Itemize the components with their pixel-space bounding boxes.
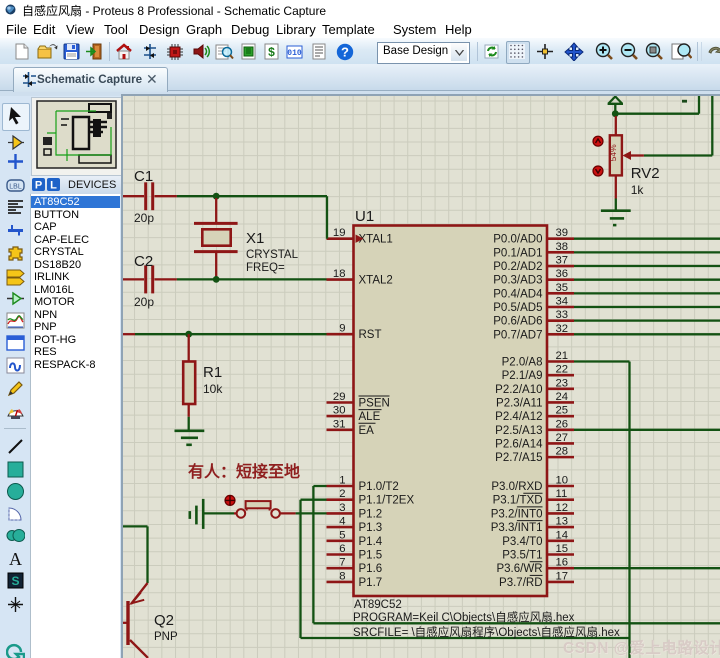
label 1k bbox=[631, 183, 645, 197]
pin 24 P2.3/A11 bbox=[496, 391, 574, 410]
node junction power/RV2 bbox=[612, 110, 619, 117]
svg-text:P1.6: P1.6 bbox=[359, 563, 383, 575]
svg-text:PROGRAM=Keil C\Objects\自感应风扇.h: PROGRAM=Keil C\Objects\自感应风扇.hex bbox=[353, 610, 575, 624]
svg-text:37: 37 bbox=[556, 255, 569, 267]
wire riser up left bbox=[698, 96, 700, 114]
svg-text:FREQ=: FREQ= bbox=[246, 262, 285, 274]
label 10k bbox=[203, 382, 223, 396]
pin 3 P1.2 bbox=[327, 502, 383, 521]
crystal X1 bbox=[194, 198, 238, 278]
svg-text:10: 10 bbox=[556, 475, 569, 487]
RV2 up adjust marker bbox=[593, 136, 603, 146]
wire P0.4 to right edge bbox=[574, 292, 720, 294]
svg-text:?: ? bbox=[341, 45, 349, 60]
label FREQ= bbox=[246, 262, 285, 274]
resistor R1 bbox=[183, 334, 195, 417]
pin 38 P0.1/AD1 bbox=[493, 241, 574, 259]
wire button to P1.2 bbox=[296, 512, 327, 514]
pin 2 P1.1/T2EX bbox=[327, 488, 415, 507]
annotation 有人：短接至地 bbox=[188, 462, 300, 481]
wire P0.7 to right edge bbox=[574, 333, 720, 335]
svg-text:2: 2 bbox=[339, 488, 345, 500]
svg-text:A: A bbox=[9, 549, 22, 568]
svg-text:P1.0/T2: P1.0/T2 bbox=[359, 481, 399, 493]
pin 37 P0.2/AD2 bbox=[493, 255, 574, 274]
label 20p C1 bbox=[134, 211, 154, 225]
capacitor C1 bbox=[146, 182, 153, 210]
svg-text:P0.2/AD2: P0.2/AD2 bbox=[493, 261, 542, 273]
ground RV2 bbox=[601, 211, 631, 225]
svg-text:EA: EA bbox=[359, 425, 375, 437]
svg-text:1k: 1k bbox=[631, 183, 645, 197]
transistor Q2 PNP bbox=[123, 583, 148, 658]
svg-text:Q2: Q2 bbox=[154, 612, 174, 629]
pin 31 EA bbox=[327, 418, 376, 437]
svg-text:C1: C1 bbox=[134, 168, 153, 185]
pin 14 P3.4/T0 bbox=[502, 529, 574, 548]
svg-text:P: P bbox=[35, 180, 42, 192]
pin 16 P3.6/WR bbox=[496, 557, 574, 576]
pin 36 P0.3/AD3 bbox=[493, 268, 574, 287]
wire SRCFILE net horizontal bbox=[301, 637, 630, 639]
svg-text:3: 3 bbox=[339, 502, 345, 514]
pin 27 P2.6/A14 bbox=[495, 432, 574, 451]
svg-text:22: 22 bbox=[556, 364, 569, 376]
wire riser up right bbox=[711, 96, 713, 156]
svg-text:S: S bbox=[11, 574, 19, 588]
svg-text:U1: U1 bbox=[355, 208, 374, 225]
pin 10 P3.0/RXD bbox=[491, 475, 574, 494]
wire C1 right lead bbox=[155, 195, 177, 197]
capacitor C2 bbox=[146, 265, 153, 293]
svg-text:P3.7/RD: P3.7/RD bbox=[499, 577, 542, 589]
mcu U1 AT89C52 body bbox=[354, 226, 548, 597]
svg-text:17: 17 bbox=[556, 570, 569, 582]
svg-text:39: 39 bbox=[556, 227, 569, 239]
svg-text:XTAL1: XTAL1 bbox=[359, 234, 393, 246]
node junction C1/X1 bbox=[213, 193, 220, 200]
svg-text:X1: X1 bbox=[246, 230, 264, 247]
pin 15 P3.5/T1 bbox=[502, 543, 574, 562]
svg-text:P0.0/AD0: P0.0/AD0 bbox=[493, 234, 542, 246]
pin 32 P0.7/AD7 bbox=[493, 323, 574, 342]
svg-text:20p: 20p bbox=[134, 295, 154, 309]
pin 39 P0.0/AD0 bbox=[493, 227, 574, 246]
svg-text:30: 30 bbox=[333, 405, 346, 417]
svg-text:P1.1/T2EX: P1.1/T2EX bbox=[359, 495, 415, 507]
svg-text:P2.1/A9: P2.1/A9 bbox=[502, 370, 543, 382]
svg-text:L: L bbox=[50, 180, 57, 192]
svg-text:1: 1 bbox=[339, 475, 345, 487]
svg-text:4: 4 bbox=[339, 516, 345, 528]
svg-text:P0.6/AD6: P0.6/AD6 bbox=[493, 316, 542, 328]
svg-text:35: 35 bbox=[556, 282, 569, 294]
svg-text:32: 32 bbox=[556, 323, 569, 335]
label C1 bbox=[134, 168, 153, 185]
svg-text:13: 13 bbox=[556, 516, 569, 528]
pin 30 ALE bbox=[327, 405, 382, 424]
pin 4 P1.3 bbox=[327, 516, 383, 535]
svg-text:CRYSTAL: CRYSTAL bbox=[246, 249, 299, 261]
pin 12 P3.2/INT0 bbox=[491, 502, 574, 521]
svg-text:有人：短接至地: 有人：短接至地 bbox=[188, 462, 300, 481]
svg-text:LBL: LBL bbox=[9, 184, 22, 191]
pin 35 P0.4/AD4 bbox=[493, 282, 574, 301]
svg-text:P0.5/AD5: P0.5/AD5 bbox=[493, 302, 542, 314]
node junction RST/R1 bbox=[185, 331, 192, 338]
svg-text:P1.7: P1.7 bbox=[359, 577, 383, 589]
label SRCFILE property bbox=[353, 625, 620, 639]
pin 18 XTAL2 bbox=[327, 268, 393, 287]
svg-text:AT89C52: AT89C52 bbox=[354, 599, 402, 611]
wire RV2 to ground bbox=[615, 199, 617, 211]
ground R1 bbox=[175, 431, 205, 445]
label PROGRAM property bbox=[353, 610, 575, 624]
pin 19 XTAL1 bbox=[327, 227, 393, 246]
label Q2 bbox=[154, 612, 174, 629]
svg-text:P0.3/AD3: P0.3/AD3 bbox=[493, 275, 542, 287]
label R1 bbox=[203, 364, 222, 381]
node junction C2/X1 bbox=[213, 276, 220, 283]
wire wiper net bbox=[644, 154, 712, 156]
pin 34 P0.5/AD5 bbox=[493, 296, 574, 315]
svg-text:PNP: PNP bbox=[154, 631, 178, 643]
pin 28 P2.7/A15 bbox=[495, 446, 574, 465]
svg-text:P2.7/A15: P2.7/A15 bbox=[495, 452, 542, 464]
svg-text:RV2: RV2 bbox=[631, 165, 660, 182]
svg-text:P2.6/A14: P2.6/A14 bbox=[495, 438, 543, 450]
pin 6 P1.5 bbox=[327, 543, 383, 562]
svg-text:P3.2/INT0: P3.2/INT0 bbox=[491, 508, 543, 520]
wire P0.2 to right edge bbox=[574, 265, 720, 267]
svg-text:26: 26 bbox=[556, 418, 569, 430]
pin 13 P3.3/INT1 bbox=[491, 516, 574, 535]
button S1 bbox=[234, 501, 296, 518]
svg-text:36: 36 bbox=[556, 268, 569, 280]
svg-text:12: 12 bbox=[556, 502, 569, 514]
svg-text:14: 14 bbox=[556, 529, 569, 541]
svg-text:P1.3: P1.3 bbox=[359, 522, 383, 534]
svg-text:P2.3/A11: P2.3/A11 bbox=[496, 397, 542, 409]
label CRYSTAL bbox=[246, 249, 299, 261]
svg-text:16: 16 bbox=[556, 557, 569, 569]
wire P2.0/A8 vertical down bbox=[628, 362, 630, 658]
wire PROGRAM net horizontal bbox=[313, 622, 720, 624]
svg-text:18: 18 bbox=[333, 268, 346, 280]
pin 29 PSEN bbox=[327, 391, 390, 410]
wire power to right riser bbox=[615, 113, 699, 115]
svg-text:P3.3/INT1: P3.3/INT1 bbox=[491, 522, 543, 534]
pin 5 P1.4 bbox=[327, 529, 383, 548]
wire pin1 P1.0 elbow bbox=[313, 486, 326, 623]
svg-text:29: 29 bbox=[333, 391, 346, 403]
svg-text:8: 8 bbox=[339, 570, 345, 582]
pin 17 P3.7/RD bbox=[499, 570, 574, 589]
svg-text:34: 34 bbox=[556, 296, 569, 308]
wire C1 to XTAL1 node bbox=[177, 195, 327, 197]
svg-text:28: 28 bbox=[556, 446, 569, 458]
pin 26 P2.5/A13 bbox=[495, 418, 574, 437]
svg-text:20p: 20p bbox=[134, 211, 154, 225]
svg-text:P3.4/T0: P3.4/T0 bbox=[502, 536, 542, 548]
wire RST stub offpage bbox=[123, 333, 135, 335]
svg-text:24: 24 bbox=[556, 391, 569, 403]
svg-text:ALE: ALE bbox=[359, 411, 381, 423]
svg-text:10k: 10k bbox=[203, 382, 223, 396]
svg-text:5: 5 bbox=[339, 529, 345, 541]
potentiometer RV2 bbox=[608, 116, 644, 199]
pin 21 P2.0/A8 bbox=[502, 350, 574, 369]
svg-text:P1.2: P1.2 bbox=[359, 508, 383, 520]
svg-text:21: 21 bbox=[556, 350, 569, 362]
svg-text:P3.6/WR: P3.6/WR bbox=[496, 563, 542, 575]
svg-text:27: 27 bbox=[556, 432, 569, 444]
svg-text:7: 7 bbox=[339, 557, 345, 569]
svg-text:P2.4/A12: P2.4/A12 bbox=[495, 411, 542, 423]
wire Q2 emitter net bbox=[123, 526, 148, 583]
svg-text:19: 19 bbox=[333, 227, 346, 239]
wire pin2 P1.1 elbow bbox=[301, 500, 327, 638]
svg-text:$: $ bbox=[268, 45, 275, 59]
pin 23 P2.2/A10 bbox=[495, 377, 574, 396]
svg-text:R1: R1 bbox=[203, 364, 222, 381]
pin 33 P0.6/AD6 bbox=[493, 309, 574, 328]
svg-text:RST: RST bbox=[359, 329, 382, 341]
svg-text:P1.4: P1.4 bbox=[359, 536, 383, 548]
svg-text:6: 6 bbox=[339, 543, 345, 555]
label C2 bbox=[134, 253, 153, 270]
pin 7 P1.6 bbox=[327, 557, 383, 576]
wire P2.5/A13 to right edge bbox=[574, 429, 720, 431]
svg-text:P2.2/A10: P2.2/A10 bbox=[495, 384, 542, 396]
wire ground to button bbox=[203, 512, 234, 514]
svg-text:P3.0/RXD: P3.0/RXD bbox=[491, 481, 542, 493]
svg-text:XTAL2: XTAL2 bbox=[359, 275, 393, 287]
svg-text:P2.0/A8: P2.0/A8 bbox=[502, 357, 543, 369]
label X1 bbox=[246, 230, 264, 247]
pin 11 P3.1/TXD bbox=[493, 488, 574, 507]
svg-text:23: 23 bbox=[556, 377, 569, 389]
svg-text:11: 11 bbox=[556, 488, 568, 500]
label 20p C2 bbox=[134, 295, 154, 309]
svg-text:P0.7/AD7: P0.7/AD7 bbox=[493, 329, 542, 341]
wire C2 left lead bbox=[123, 278, 144, 280]
wire P0.5 to right edge bbox=[574, 306, 720, 308]
svg-text:54%: 54% bbox=[608, 144, 618, 161]
svg-text:P0.4/AD4: P0.4/AD4 bbox=[493, 288, 543, 300]
svg-text:15: 15 bbox=[556, 543, 569, 555]
wire P0.0 to right edge bbox=[574, 238, 720, 240]
battery stub offpage bbox=[682, 100, 687, 103]
svg-text:P3.5/T1: P3.5/T1 bbox=[502, 550, 542, 562]
pin 22 P2.1/A9 bbox=[502, 364, 574, 383]
wire P0.6 to right edge bbox=[574, 320, 720, 322]
svg-text:P0.1/AD1: P0.1/AD1 bbox=[493, 247, 542, 259]
wire P2.0/A8 horizontal bbox=[574, 360, 630, 362]
label RV2 bbox=[631, 165, 660, 182]
wire P3.6/WR to right edge bbox=[574, 567, 720, 569]
label U1 bbox=[355, 208, 374, 225]
wire P0.1 to right edge bbox=[574, 251, 720, 253]
ground button sideways bbox=[190, 499, 203, 529]
pin 8 P1.7 bbox=[327, 570, 383, 589]
label AT89C52 bbox=[354, 599, 402, 611]
svg-text:PSEN: PSEN bbox=[359, 398, 390, 410]
wire C2 to XTAL2 bbox=[177, 278, 327, 280]
svg-text:P2.5/A13: P2.5/A13 bbox=[495, 425, 542, 437]
wire P0.3 to right edge bbox=[574, 279, 720, 281]
svg-text:9: 9 bbox=[339, 323, 345, 335]
svg-text:P3.1/TXD: P3.1/TXD bbox=[493, 495, 543, 507]
button actuator marker bbox=[225, 495, 235, 505]
pin 9 RST bbox=[327, 323, 382, 342]
svg-text:C2: C2 bbox=[134, 253, 153, 270]
power terminal +5V bbox=[608, 97, 623, 114]
svg-text:33: 33 bbox=[556, 309, 569, 321]
wire down to XTAL1 bbox=[326, 196, 328, 239]
wire C2 right lead bbox=[155, 278, 177, 280]
svg-text:25: 25 bbox=[556, 405, 569, 417]
pin 25 P2.4/A12 bbox=[495, 405, 574, 424]
svg-text:010: 010 bbox=[287, 49, 302, 58]
svg-text:P1.5: P1.5 bbox=[359, 550, 383, 562]
RV2 down adjust marker bbox=[593, 166, 603, 176]
svg-text:38: 38 bbox=[556, 241, 569, 253]
wire C1 left lead bbox=[123, 195, 144, 197]
svg-text:31: 31 bbox=[333, 418, 346, 430]
pin 1 P1.0/T2 bbox=[327, 475, 399, 494]
label PNP bbox=[154, 631, 178, 643]
wire R1 to ground bbox=[188, 417, 190, 430]
wire RST net bbox=[135, 333, 327, 335]
